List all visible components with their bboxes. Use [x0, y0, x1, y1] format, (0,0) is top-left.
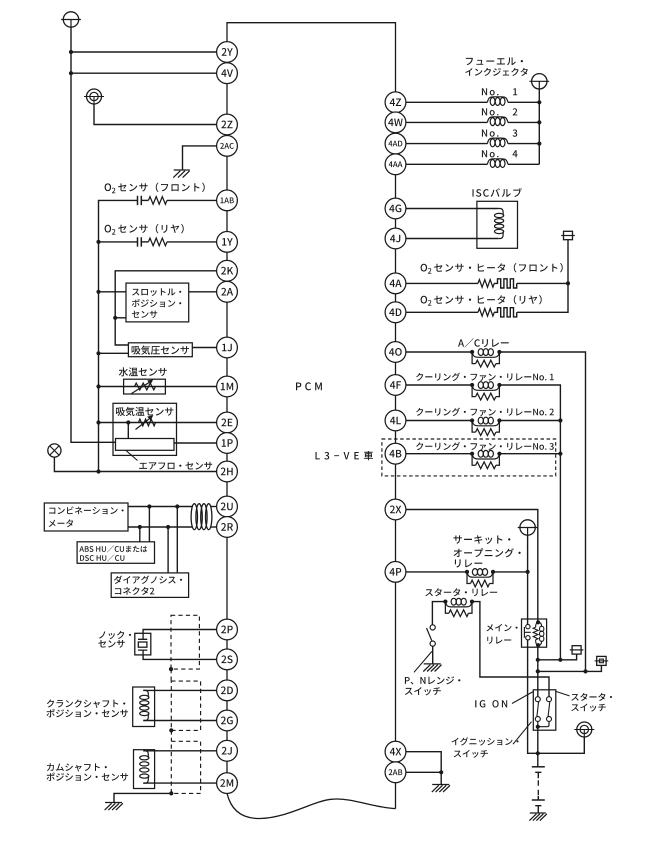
P/N switch blade	[427, 628, 432, 641]
heater element rear	[494, 308, 517, 317]
wire circuit opening relay to battery feed	[493, 571, 528, 573]
wire starter relay to PN switch	[432, 602, 445, 626]
injector No. 3 coil	[487, 138, 508, 147]
heater supply vertical	[517, 240, 568, 313]
PCM pin 2K	[217, 260, 238, 281]
starter switch label1	[571, 693, 612, 701]
PCM pin 4O	[385, 342, 406, 363]
wire heater front to supply	[517, 282, 568, 284]
wire cam to pin 2M	[143, 782, 216, 784]
wire pin 4D to heater rear	[406, 311, 478, 313]
wire IAT to pin 2E	[99, 422, 217, 424]
battery symbol injectors	[529, 74, 549, 89]
PCM pin 2P	[217, 619, 238, 640]
wire O2 rear to pin 1Y	[99, 241, 217, 243]
PCM pin 2X	[385, 499, 406, 520]
node fan bus relay2	[558, 418, 562, 422]
PCM pin 4B	[385, 443, 406, 464]
wire O2 front to pin 1AB	[99, 200, 217, 242]
IG contact bottom	[535, 717, 540, 722]
AC relay label	[458, 338, 509, 347]
ground battery tail	[529, 813, 547, 821]
injector No. 4 label	[482, 150, 499, 157]
node on 2K wire	[113, 316, 117, 320]
wire TPS ground to bus	[99, 291, 127, 293]
dashed box L3-VE fan relay3	[382, 439, 556, 476]
starter relay	[443, 598, 474, 616]
wire fan relay3 to fan bus	[499, 453, 560, 455]
injector No. 1 coil	[487, 97, 508, 106]
IG blade	[537, 702, 539, 717]
wire pin 4F to fan relay1	[406, 384, 472, 386]
wire to battery cells	[537, 753, 539, 766]
main relay label2	[487, 637, 511, 644]
wire main relay coil down to ignition switch	[537, 645, 539, 697]
wire MAF out to pin 1P	[174, 442, 217, 444]
battery cell T 2	[535, 806, 541, 813]
circuit opening relay label1	[453, 535, 510, 544]
O2 heater front label	[421, 263, 563, 274]
wire injector No. 2 to bus	[508, 121, 539, 123]
branch wires to diagnosis connector	[168, 507, 177, 573]
wire battery down to MAF supply	[71, 27, 116, 442]
fan relay1 label	[416, 373, 554, 382]
starter relay label	[425, 588, 497, 596]
wire 671 row	[538, 665, 602, 671]
wire MAP to pin 1J	[192, 347, 216, 349]
wire TPS wiper branch	[115, 317, 126, 319]
fan relay3 label	[416, 442, 554, 451]
battery symbol circuit opening relay	[518, 520, 538, 535]
starter switch leader	[556, 691, 570, 696]
PCM pin 2D	[217, 680, 238, 701]
battery symbol top-left	[61, 12, 81, 27]
PCM pin 2Z	[217, 114, 238, 135]
IG contact top	[535, 697, 540, 702]
node heater front	[566, 281, 570, 285]
wire pin 2K to TPS/MAP reference	[115, 271, 216, 345]
warning lamp symbol	[48, 444, 61, 457]
TPS label line1	[132, 288, 181, 296]
O2 heater rear label	[421, 295, 542, 306]
shield dashed link 1-2	[170, 669, 172, 681]
node at battery line	[536, 751, 540, 755]
MAP sensor label	[132, 346, 189, 355]
diagnosis label line2	[115, 587, 154, 595]
ABS label line1	[79, 545, 147, 552]
starter switch label2	[571, 704, 606, 712]
L3-VE vehicle note	[316, 451, 374, 460]
thermistor IAT	[136, 415, 156, 429]
P/N range switch contact bottom	[430, 641, 435, 646]
node battery feed 4P row	[526, 570, 530, 574]
cam sensor label1	[47, 763, 107, 771]
fan relay2 label	[416, 408, 554, 417]
PCM pin 4D	[385, 302, 406, 323]
ABS label line2	[80, 554, 124, 561]
ISC valve label	[473, 188, 522, 197]
fuel injector label2	[465, 68, 528, 76]
crank sensor label1	[47, 700, 126, 708]
main relay box	[522, 619, 547, 647]
wire pin 4P to circuit opening relay	[406, 571, 467, 573]
cam sensor coil	[140, 751, 149, 783]
node IAT to MAF stub	[126, 420, 130, 424]
double circle connector starter	[574, 722, 594, 737]
water temp sensor label	[119, 367, 167, 376]
PCM pin 2AC	[217, 136, 238, 157]
square connector symbol O2 heater	[561, 231, 575, 239]
injector supply bus	[538, 89, 540, 165]
PCM pin 2E	[217, 412, 238, 433]
node 671 row main	[536, 669, 540, 673]
capacitor O2 front	[138, 196, 142, 205]
node main relay coil bottom	[536, 643, 540, 647]
MAF sensor bar	[116, 439, 175, 451]
wire injector No. 1 to bus	[508, 101, 539, 103]
PCM pin 4P	[385, 562, 406, 583]
PCM pin 4J	[385, 228, 406, 249]
resistor O2 rear	[148, 238, 167, 246]
node injector No. 3 bus	[537, 142, 541, 146]
diagnosis connector box	[111, 573, 188, 598]
square connector above 659 row	[570, 646, 584, 654]
wire knock sensor to pin 2S	[143, 655, 217, 660]
main relay blade	[524, 627, 530, 638]
ground for 2AC	[173, 170, 189, 178]
injector No. 2 label	[482, 108, 499, 115]
node switch bottoms	[536, 725, 540, 729]
diagnosis label line1	[114, 576, 182, 584]
wire main relay contact down	[528, 640, 585, 753]
ground shield drain	[105, 803, 123, 811]
PCM pin 4AD	[385, 133, 406, 154]
node IAT on bus	[96, 420, 100, 424]
fan relay 1	[470, 382, 502, 400]
battery cell bar 2	[532, 796, 545, 800]
PCM pin 4X	[385, 741, 406, 762]
PCM pin 2AB	[385, 762, 406, 783]
AC relay	[470, 349, 502, 367]
node meter top line to ABS	[147, 504, 151, 508]
node shield drain 1	[169, 667, 173, 671]
ST contact bottom	[547, 717, 552, 722]
shield dashed box cam sensor	[171, 741, 200, 793]
ignition switch box	[533, 690, 556, 730]
O2 sensor front label	[105, 183, 205, 194]
ignition switch label1	[452, 737, 519, 745]
wire to pin 2Y	[71, 51, 217, 53]
injector No. 2 number	[513, 108, 518, 115]
battery feed vertical	[527, 535, 529, 628]
PCM pin 2J	[217, 740, 238, 761]
wire pin 4B to fan relay3	[406, 453, 472, 455]
wire lamp to pin 2H	[54, 457, 216, 471]
PCM pin 2A	[217, 281, 238, 302]
wire fan relay2 to fan bus	[499, 420, 560, 422]
wire pin to injector No. 3	[406, 143, 488, 145]
PN switch label leader	[414, 651, 432, 672]
shield dashed box knock sensor	[171, 615, 199, 669]
wire crank to pin 2G	[143, 720, 216, 722]
branch wires to ABS box	[140, 507, 150, 542]
PCM pin 1P	[217, 433, 238, 454]
O2 sensor rear label	[105, 224, 184, 235]
injector No. 4 coil	[487, 159, 508, 168]
camshaft position sensor box	[134, 750, 155, 789]
knock sensor label2	[98, 640, 124, 648]
wire pin 2AC to ground	[183, 146, 217, 170]
wire AC relay to right bus	[499, 352, 585, 671]
crank sensor coil	[140, 690, 149, 720]
TPS label line2	[132, 299, 182, 307]
resistor heater front	[478, 280, 494, 288]
node TPS ground on bus	[96, 290, 100, 294]
node bus end at 2H row	[96, 469, 100, 473]
node meter bottom line to diagnosis	[166, 525, 170, 529]
wire to pin 4V	[71, 72, 217, 74]
wire pin 2P to knock sensor	[143, 630, 217, 634]
ABS/DSC box	[77, 542, 154, 564]
PCM pin 2S	[217, 649, 238, 670]
wire pin 2X to main relay coil	[406, 510, 538, 623]
double square connector 671 row	[595, 656, 609, 665]
wire meter to twisted pair top	[128, 506, 217, 508]
wire pin to injector No. 1	[406, 101, 488, 103]
injector No. 1 number	[513, 88, 517, 95]
wire water temp to pin 1M	[99, 386, 217, 388]
node on battery wire at 2Y row	[69, 50, 73, 54]
injector No. 2 coil	[487, 117, 508, 126]
node 4X/2AB join	[439, 770, 443, 774]
shield dashed link 2-3	[170, 730, 172, 741]
water temp sensor box	[124, 379, 166, 394]
PCM label	[296, 382, 322, 390]
wire cam to pin 2J	[143, 750, 216, 752]
twisted pair symbol	[191, 504, 212, 530]
stub IAT down to MAF bar	[127, 423, 129, 439]
node on battery wire at 4V row	[69, 71, 73, 75]
node 659 row main	[536, 658, 540, 662]
knock sensor label1	[99, 631, 131, 639]
wire injector No. 3 to bus	[508, 143, 539, 145]
ST blade	[548, 702, 550, 717]
wire pin to injector No. 2	[406, 121, 488, 123]
PCM pin 2R	[217, 517, 238, 538]
PCM module box outline	[227, 23, 396, 819]
main relay label1	[486, 624, 517, 631]
P/N range switch contact top	[430, 625, 435, 630]
node 659 row fan bus	[558, 658, 562, 662]
PCM pin 1J	[217, 337, 238, 358]
PCM pin 4A	[385, 273, 406, 294]
wire join to ground	[440, 772, 442, 784]
resistor heater rear	[478, 309, 494, 317]
heater element front	[494, 279, 517, 288]
crank sensor label2	[47, 709, 129, 718]
wire MAP ground to bus	[99, 352, 129, 354]
ground PN switch	[423, 664, 441, 672]
throttle position sensor box	[126, 283, 189, 322]
injector No. 1 label	[482, 88, 499, 95]
TPS label line3	[132, 311, 158, 319]
PN switch label1	[405, 676, 461, 684]
PCM pin 2U	[217, 496, 238, 517]
MAF sensor label	[139, 462, 212, 470]
PCM pin 1AB	[217, 190, 238, 211]
injector No. 4 number	[513, 150, 518, 157]
node injector No. 2 bus	[537, 120, 541, 124]
PCM pin 4F	[385, 375, 406, 396]
fan relay 3	[470, 450, 502, 468]
MAF label leader	[126, 451, 138, 461]
intake air temp label	[116, 407, 173, 416]
PCM pin 1Y	[217, 232, 238, 253]
wire pin 4G to ISC	[406, 208, 498, 210]
injector No. 3 number	[513, 129, 518, 136]
knock sensor symbol	[135, 633, 151, 655]
node fan bus relay3	[558, 452, 562, 456]
IG ON leader	[512, 692, 533, 704]
intake pressure sensor box	[128, 343, 192, 357]
connector symbol (double circle) top-left	[84, 89, 104, 104]
cam sensor label2	[47, 773, 129, 782]
ISC valve coil	[495, 209, 504, 239]
node 1Y row on sensor-ground bus	[96, 240, 100, 244]
main relay coil and resistor	[533, 622, 544, 645]
node meter bottom line to ABS	[138, 525, 142, 529]
ST contact top	[547, 697, 552, 702]
ground 4X/2AB	[432, 785, 450, 793]
combination meter label1	[49, 506, 124, 514]
IG ON label	[475, 700, 507, 707]
node 671 row AC	[583, 669, 587, 673]
PCM pin 4Z	[385, 92, 406, 113]
PN switch label2	[405, 687, 441, 695]
dashed link	[537, 780, 539, 796]
wire pin to injector No. 4	[406, 163, 488, 165]
wire pin 2AB to ground	[406, 771, 441, 773]
main relay contact bottom	[526, 636, 530, 640]
wire switch bottoms join	[538, 722, 549, 727]
circuit opening relay label3	[455, 559, 482, 567]
wire connector to pin 2Z	[94, 104, 217, 125]
ignition switch label2	[454, 750, 488, 758]
battery cell bar 1	[532, 766, 545, 768]
PCM pin 2Y	[217, 42, 238, 63]
main relay contact top	[526, 624, 530, 628]
thermistor water temp	[132, 379, 156, 393]
node MAP ground on bus	[96, 351, 100, 355]
combination meter box	[44, 503, 128, 531]
fan relay 2	[470, 417, 502, 435]
node injector No. 1 bus	[537, 100, 541, 104]
wire fan relay1 to fan bus	[499, 385, 560, 660]
wire starter relay to ignition switch ST	[472, 602, 549, 697]
intake air temp sensor outer box	[113, 403, 177, 455]
PCM pin 4AA	[385, 154, 406, 175]
wire pin 4J to ISC	[406, 238, 498, 240]
wire meter to twisted pair bottom	[128, 526, 217, 528]
PCM pin 4L	[385, 410, 406, 431]
ignition switch leader	[513, 722, 532, 745]
injector No. 3 label	[482, 130, 499, 137]
wire pin 4O to AC relay	[406, 351, 472, 353]
fuel injector label1	[466, 58, 523, 66]
wire injector No. 4 to bus	[508, 163, 539, 165]
resistor O2 front	[148, 197, 167, 205]
PCM pin 4V	[217, 63, 238, 84]
wire PN switch to ground	[432, 646, 434, 664]
shield dashed box crank sensor	[171, 681, 200, 730]
combination meter label2	[49, 519, 73, 527]
battery cell T 1	[535, 772, 541, 778]
shield drain wire to ground	[114, 793, 171, 802]
crankshaft position sensor box	[133, 687, 155, 727]
node meter top line to diagnosis	[175, 504, 179, 508]
PCM pin 1M	[217, 376, 238, 397]
PCM pin 4W	[385, 112, 406, 133]
node shield drain 3	[169, 791, 173, 795]
PCM pin 2H	[217, 461, 238, 482]
circuit opening relay label2	[454, 548, 521, 557]
ISC valve box	[477, 201, 518, 248]
node shield drain 2	[169, 728, 173, 732]
PCM pin 2M	[217, 773, 238, 794]
wire pin 4X to ground join	[406, 752, 441, 773]
node water temp on bus	[96, 384, 100, 388]
node main relay coil top	[536, 620, 540, 624]
wire TPS to pin 2A	[189, 291, 217, 293]
sensor ground bus vertical	[98, 242, 100, 472]
wire 659 row	[538, 654, 577, 660]
wire crank to pin 2D	[143, 689, 216, 691]
wire ignition switch down	[537, 727, 539, 754]
PCM pin 2G	[217, 710, 238, 731]
wire pin 4L to fan relay2	[406, 420, 472, 422]
capacitor O2 rear	[138, 237, 142, 246]
circuit opening relay	[465, 569, 495, 587]
PCM pin 4G	[385, 198, 406, 219]
wire pin 4A to heater front	[406, 282, 478, 284]
